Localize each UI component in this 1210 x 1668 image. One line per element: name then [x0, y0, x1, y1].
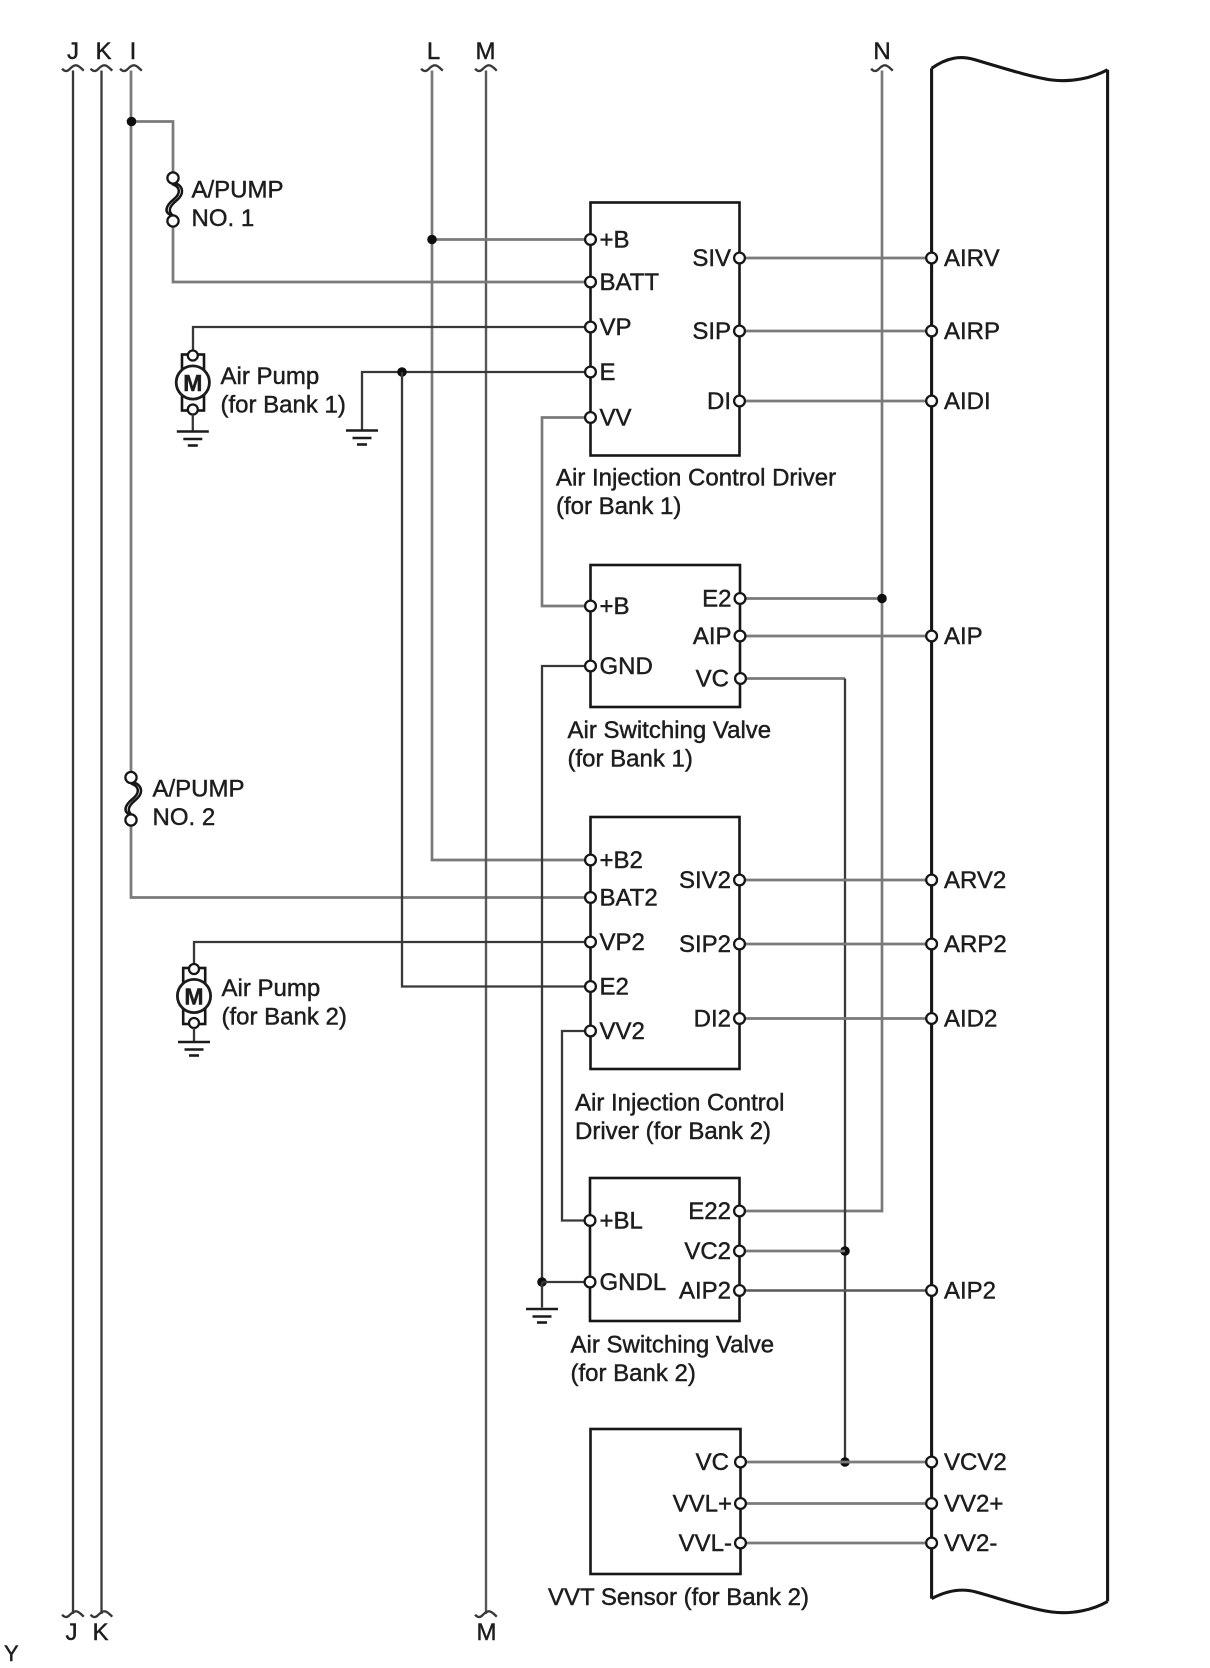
node K top break: [91, 65, 113, 71]
ECM pin AID2: [926, 1006, 997, 1033]
motor M2 Air Pump (for Bank 2): [177, 964, 210, 1028]
svg-text:VV: VV: [600, 405, 632, 432]
wire VVL+ to VV2+: [741, 1502, 932, 1505]
junction dot at GNDL ground: [537, 1277, 547, 1287]
svg-text:AIDI: AIDI: [944, 388, 991, 415]
wire SIP to AIRP: [740, 330, 932, 333]
motor M1 Air Pump (for Bank 1): [176, 351, 209, 415]
svg-text:SIP2: SIP2: [679, 931, 731, 958]
svg-text:VC: VC: [696, 666, 729, 693]
svg-text:+B: +B: [600, 593, 630, 620]
ECM pin AIRP: [926, 318, 1000, 345]
U5 pin VC: [696, 1449, 746, 1476]
svg-text:VC: VC: [696, 1449, 729, 1476]
svg-text:N: N: [873, 38, 890, 65]
U1 pin BATT: [585, 269, 659, 296]
svg-text:+BL: +BL: [600, 1208, 643, 1235]
svg-text:DI2: DI2: [694, 1006, 731, 1033]
svg-text:J: J: [66, 1619, 78, 1646]
node M bottom break: [475, 1611, 497, 1617]
svg-text:GNDL: GNDL: [600, 1269, 667, 1296]
U3 pin E2: [585, 974, 629, 1001]
U2 pin E2: [702, 586, 745, 613]
svg-text:(for Bank 1): (for Bank 1): [221, 392, 346, 419]
node J bottom break: [62, 1611, 84, 1617]
wire VP2 to motor M2: [194, 942, 591, 965]
node K bottom break: [91, 1611, 113, 1617]
ECM pin VV2-: [926, 1530, 997, 1557]
wire I (bus, down to fuse 2 then to BAT2): [131, 71, 591, 898]
node N top break: [871, 65, 893, 71]
wire +B of driver 1 tap from L: [432, 238, 591, 241]
svg-text:AIP: AIP: [693, 623, 732, 650]
svg-text:A/PUMP: A/PUMP: [192, 177, 284, 204]
wire SIV2 to ARV2: [740, 879, 932, 882]
wire VC2 of valve 2 to VC net: [740, 1250, 846, 1253]
U3 pin SIP2: [679, 931, 745, 958]
wire VC of VVT sensor to VCV2: [741, 1461, 932, 1464]
ECM pin VCV2: [926, 1449, 1007, 1476]
U4 pin VC2: [684, 1238, 745, 1265]
wire VC of valve 1 down to VCV2: [741, 679, 846, 1463]
node M top break: [475, 65, 497, 71]
wire SIP2 to ARP2: [740, 943, 932, 946]
op-unit U4 Air Switching Valve (for Bank 2): [590, 1178, 740, 1321]
U2 pin VC: [696, 666, 746, 693]
svg-text:NO. 2: NO. 2: [153, 804, 216, 831]
svg-text:AID2: AID2: [944, 1006, 997, 1033]
wire motor M2 to ground: [193, 1028, 195, 1041]
wire branch I to fuse A/PUMP NO.1: [131, 122, 173, 173]
svg-text:DI: DI: [707, 388, 731, 415]
svg-text:VC2: VC2: [684, 1238, 731, 1265]
svg-text:AIRP: AIRP: [944, 318, 1000, 345]
ground (E wire, bank 1): [346, 431, 378, 445]
ECM pin AIP2: [926, 1278, 996, 1305]
svg-text:M: M: [183, 370, 202, 396]
wire DI to AIDI: [740, 400, 932, 403]
fuse A/PUMP NO.1: [167, 172, 182, 226]
U1 pin DI: [707, 388, 745, 415]
U1 pin SIV: [692, 245, 745, 272]
ECM pin ARP2: [926, 931, 1007, 958]
U2 pin AIP: [693, 623, 746, 650]
ECM pin AIDI: [926, 388, 990, 415]
op-unit U3 Air Injection Control Driver (for Bank 2): [591, 817, 740, 1069]
U3 pin SIV2: [679, 867, 745, 894]
ground (GNDL): [526, 1309, 558, 1323]
svg-text:AIRV: AIRV: [944, 245, 1000, 272]
U1 pin SIP: [692, 318, 745, 345]
junction dot VC/VCV2: [840, 1457, 850, 1467]
U3 pin +B2: [585, 847, 643, 874]
wire VVL- to VV2-: [741, 1542, 932, 1545]
wire DI2 to AID2: [740, 1017, 932, 1020]
U2 pin GND: [585, 653, 653, 680]
svg-text:BATT: BATT: [600, 269, 660, 296]
svg-text:E2: E2: [600, 974, 629, 1001]
wire dot to ground: [541, 1282, 543, 1308]
U1 pin +B: [585, 227, 629, 254]
svg-text:M: M: [476, 38, 496, 65]
U3 pin VV2: [585, 1018, 645, 1045]
U2 pin +B: [585, 593, 629, 620]
svg-text:+B: +B: [600, 227, 630, 254]
svg-text:E22: E22: [688, 1198, 731, 1225]
svg-text:Air Pump: Air Pump: [222, 975, 321, 1002]
svg-text:+B2: +B2: [600, 847, 643, 874]
junction dot VC/VC2: [840, 1246, 850, 1256]
svg-text:I: I: [130, 38, 137, 65]
svg-text:VCV2: VCV2: [944, 1449, 1007, 1476]
svg-text:SIP: SIP: [692, 318, 731, 345]
U5 pin VVL-: [679, 1530, 746, 1557]
svg-text:BAT2: BAT2: [600, 885, 658, 912]
svg-text:AIP2: AIP2: [944, 1278, 996, 1305]
wire E junction down to E2 of driver 2: [402, 372, 591, 987]
svg-text:Air Pump: Air Pump: [221, 363, 320, 390]
svg-text:VVL+: VVL+: [673, 1491, 732, 1518]
svg-text:E2: E2: [702, 586, 731, 613]
svg-text:A/PUMP: A/PUMP: [153, 776, 245, 803]
wire J (left bus, full height): [72, 71, 74, 1615]
U3 pin DI2: [694, 1006, 745, 1033]
svg-text:E: E: [600, 359, 616, 386]
U4 pin GNDL: [585, 1269, 667, 1296]
wire E2 of valve 1 to N: [740, 597, 883, 600]
ECM pin ARV2: [926, 867, 1006, 894]
wire AIP2 of valve 2 to ECM AIP2: [740, 1289, 932, 1291]
svg-text:L: L: [427, 38, 440, 65]
svg-text:VV2: VV2: [600, 1018, 645, 1045]
svg-text:VVT Sensor (for Bank 2): VVT Sensor (for Bank 2): [548, 1584, 809, 1611]
svg-text:M: M: [184, 984, 203, 1010]
svg-text:VV2-: VV2-: [944, 1530, 997, 1557]
svg-text:SIV: SIV: [692, 245, 731, 272]
svg-text:VV2+: VV2+: [944, 1491, 1003, 1518]
svg-text:(for Bank 2): (for Bank 2): [222, 1004, 347, 1031]
svg-text:ARV2: ARV2: [944, 867, 1006, 894]
svg-text:AIP2: AIP2: [679, 1278, 731, 1305]
wire fuse1 output to BATT: [173, 227, 591, 283]
svg-text:M: M: [477, 1619, 497, 1646]
wire GND of valve 1 down to GNDL ground: [542, 666, 591, 1282]
svg-text:J: J: [67, 38, 79, 65]
U5 pin VVL+: [673, 1491, 746, 1518]
U1 pin VP: [585, 314, 631, 341]
svg-text:K: K: [95, 38, 111, 65]
op-unit U1 Air Injection Control Driver (for Bank 1): [591, 203, 740, 456]
U1 pin E: [585, 359, 615, 386]
ECM connector block (wavy top and bottom): [932, 58, 1108, 1613]
node I top break: [120, 65, 142, 71]
U3 pin VP2: [585, 929, 645, 956]
junction dot on E wire: [397, 367, 407, 377]
wire K (left bus, full height): [100, 71, 102, 1615]
junction dot on wire L: [427, 235, 437, 245]
svg-text:NO. 1: NO. 1: [192, 205, 255, 232]
svg-text:GND: GND: [600, 653, 653, 680]
ground (below motor M2): [178, 1042, 210, 1056]
wire VV2 of driver 2 to +BL of valve 2: [562, 1031, 591, 1221]
wire GNDL of valve 2: [542, 1281, 591, 1283]
svg-text:AIP: AIP: [944, 623, 983, 650]
node J top break: [62, 65, 84, 71]
svg-text:ARP2: ARP2: [944, 931, 1007, 958]
wire L (bus, down to +B2): [432, 71, 591, 861]
svg-text:(for Bank 1): (for Bank 1): [556, 493, 681, 520]
ECM pin AIP: [926, 623, 982, 650]
svg-text:(for Bank 2): (for Bank 2): [571, 1360, 696, 1387]
svg-text:K: K: [92, 1619, 108, 1646]
node L top break: [421, 65, 443, 71]
ECM pin VV2+: [926, 1491, 1003, 1518]
U4 pin +BL: [585, 1208, 643, 1235]
U4 pin AIP2: [679, 1278, 745, 1305]
wire motor M1 to ground: [192, 415, 194, 432]
U3 pin BAT2: [585, 885, 658, 912]
U4 pin E22: [688, 1198, 745, 1225]
svg-text:Driver (for Bank 2): Driver (for Bank 2): [575, 1118, 771, 1145]
U1 pin VV: [585, 405, 631, 432]
ground (below motor M1): [177, 432, 209, 446]
op-unit U2 Air Switching Valve (for Bank 1): [591, 565, 741, 707]
svg-text:(for Bank 1): (for Bank 1): [568, 746, 693, 773]
junction dot on wire I: [127, 117, 137, 127]
op-unit U5 VVT Sensor (for Bank 2): [591, 1429, 741, 1574]
wire N (bus, down to E22): [740, 71, 883, 1212]
svg-text:Air Injection Control Driver: Air Injection Control Driver: [556, 465, 836, 492]
wire AIP of valve 1 to ECM AIP: [740, 635, 932, 638]
svg-text:Air Injection Control: Air Injection Control: [575, 1090, 784, 1117]
svg-text:VP: VP: [600, 314, 632, 341]
svg-text:VP2: VP2: [600, 929, 645, 956]
svg-text:Y: Y: [4, 1641, 19, 1666]
svg-text:Air Switching Valve: Air Switching Valve: [568, 717, 772, 744]
wire VP to motor M1: [193, 327, 591, 351]
junction dot E2/N: [877, 594, 887, 604]
wire VV of driver 1 to +B of valve 1: [542, 418, 591, 607]
svg-text:SIV2: SIV2: [679, 867, 731, 894]
wire E of driver 1 to ground and junction: [362, 372, 591, 430]
svg-text:Air Switching Valve: Air Switching Valve: [571, 1332, 775, 1359]
wire SIV to AIRV: [740, 257, 932, 260]
fuse A/PUMP NO.2 (on wire I): [125, 772, 141, 826]
svg-text:VVL-: VVL-: [679, 1530, 732, 1557]
ECM pin AIRV: [926, 245, 999, 272]
wire M (bus, full height): [485, 71, 487, 1615]
